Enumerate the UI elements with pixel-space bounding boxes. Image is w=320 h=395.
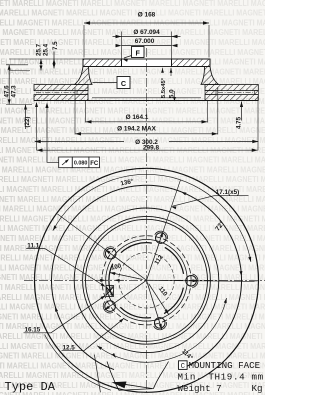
svg-text:Ø 168: Ø 168 xyxy=(138,12,156,19)
dim 100 xyxy=(110,272,143,279)
circle Ø164.1 xyxy=(86,219,208,341)
svg-text:47.6: 47.6 xyxy=(3,85,10,98)
ring bottom edge full xyxy=(34,100,258,102)
svg-text:MOUNTING FACE: MOUNTING FACE xyxy=(189,360,261,371)
hat left wall xyxy=(75,67,93,85)
bolt holes Ø17.1 xyxy=(186,275,197,286)
dim 47.6 / 47.3 xyxy=(8,65,10,105)
svg-text:25.4: 25.4 xyxy=(42,43,49,56)
hat right wall xyxy=(201,67,219,85)
svg-text:Ø 67.094: Ø 67.094 xyxy=(133,29,160,36)
svg-text:C: C xyxy=(121,79,126,88)
datum C box xyxy=(117,77,130,89)
runout frame 0.080 FC xyxy=(59,157,73,168)
radial extension 0 xyxy=(198,280,258,283)
vertical centerline xyxy=(146,48,148,168)
svg-text:17.1(x5): 17.1(x5) xyxy=(216,189,239,196)
svg-text:0.080: 0.080 xyxy=(74,161,88,167)
revolved hole section left xyxy=(106,286,114,297)
svg-text:Kg: Kg xyxy=(252,383,263,394)
svg-text:7.5: 7.5 xyxy=(52,41,59,50)
svg-text:299.8: 299.8 xyxy=(143,145,159,152)
vertical centerline bottom view xyxy=(146,170,148,392)
svg-text:4.75: 4.75 xyxy=(235,116,242,129)
svg-text:Ø 194.2 MAX: Ø 194.2 MAX xyxy=(117,126,156,133)
svg-text:Min. TH19.4 mm: Min. TH19.4 mm xyxy=(178,372,264,383)
hub bore edges xyxy=(121,59,123,67)
outer face circle xyxy=(52,185,242,369)
svg-text:25.7: 25.7 xyxy=(35,43,42,56)
arc lower-left xyxy=(45,335,111,391)
bolt bosses xyxy=(192,274,198,288)
svg-text:47.3: 47.3 xyxy=(10,85,17,98)
radial extension 71 xyxy=(163,180,181,232)
circle Ø110 xyxy=(106,239,188,321)
dim 4.75 xyxy=(241,102,243,121)
bottom cutaway break lines xyxy=(107,362,119,391)
svg-text:C: C xyxy=(181,363,185,371)
svg-text:Ø 164.1: Ø 164.1 xyxy=(126,114,149,121)
arrows 72 deg on r95 xyxy=(239,271,242,276)
arc 114 deg xyxy=(97,298,226,362)
arc 136 deg xyxy=(53,174,251,262)
hat circle Ø168 xyxy=(83,216,211,344)
svg-text:F: F xyxy=(136,48,141,57)
outer circle Ø300 xyxy=(35,168,259,392)
vent slot centerline left xyxy=(36,92,75,94)
svg-text:Type DA: Type DA xyxy=(5,380,56,394)
svg-text:(22): (22) xyxy=(24,116,31,127)
far-side ring edge under hat xyxy=(92,97,201,99)
svg-text:Weight 7: Weight 7 xyxy=(178,383,222,394)
dim 25.7 / 25.4 xyxy=(40,59,42,71)
svg-text:FC: FC xyxy=(90,161,99,167)
friction ring right section xyxy=(205,85,258,91)
swing circle Ø194.2 xyxy=(74,208,219,353)
runout leader xyxy=(47,104,59,162)
bolt hole radial lines xyxy=(147,279,198,282)
dim 110 xyxy=(149,284,169,315)
hub circle Ø100 bold xyxy=(165,247,184,273)
datum C mounting face xyxy=(179,361,188,370)
counterbore circle xyxy=(119,253,174,308)
vent slot centerline right xyxy=(218,92,253,94)
radial extension 143 xyxy=(58,214,107,250)
datum F box xyxy=(132,47,145,58)
dim 7.5 xyxy=(53,52,55,69)
bolt circle dashed xyxy=(102,236,191,325)
left witness lines xyxy=(9,58,83,60)
type DA arrow xyxy=(124,384,152,388)
horizontal centerline xyxy=(24,279,268,281)
dim (22) xyxy=(25,105,27,130)
friction ring left section xyxy=(34,85,88,91)
hat mounting plate xyxy=(83,59,210,67)
svg-text:67.000: 67.000 xyxy=(135,38,155,45)
svg-text:5.5x45°: 5.5x45° xyxy=(161,77,167,98)
